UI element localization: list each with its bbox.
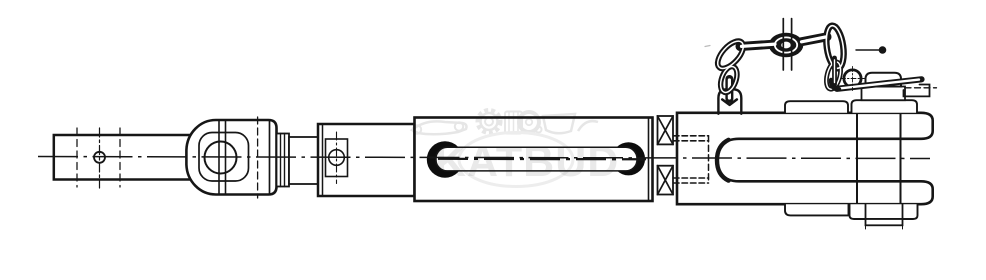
thread band bottom X xyxy=(658,166,674,195)
linch pin hook dashed line xyxy=(905,87,937,89)
chain link upper-left (outer) xyxy=(713,37,748,73)
linch pin hook end xyxy=(904,85,930,97)
thread band top X xyxy=(658,116,674,144)
chain link lower-left (outer) xyxy=(717,64,740,94)
tube right inner line xyxy=(648,118,650,202)
leader line xyxy=(856,49,880,51)
left bar hidden line b xyxy=(119,128,121,187)
slot white channel xyxy=(436,147,637,171)
chain small link to clip (outer) xyxy=(824,60,843,90)
clevis thread hidden bottom pair xyxy=(674,177,709,179)
chain white cores xyxy=(713,37,748,73)
eye head vertical line b xyxy=(225,121,227,194)
chain end link arch xyxy=(718,89,741,114)
channel centerline overlay xyxy=(438,158,646,161)
collar xyxy=(277,134,290,187)
pin head top block xyxy=(866,73,902,87)
watermark droplet icon xyxy=(536,127,542,133)
svg-text:KATBUD: KATBUD xyxy=(435,138,619,186)
linch pin ring xyxy=(844,70,861,87)
eye head hidden vertical xyxy=(257,117,259,198)
eye head inner right line xyxy=(269,121,271,194)
watermark wheel icon xyxy=(519,112,539,132)
left bar hole xyxy=(94,152,105,163)
watermark pan icon xyxy=(543,114,575,133)
clevis slot cap heavy arc xyxy=(717,140,729,181)
pin bottom whisker right xyxy=(902,225,904,229)
eye head body xyxy=(186,120,276,195)
eye hole circle xyxy=(205,142,237,174)
grease fitting vertical centerline xyxy=(336,132,338,184)
chain center ring (outer) xyxy=(769,33,804,57)
watermark fender icon xyxy=(578,121,598,131)
watermark gear icon xyxy=(478,110,501,133)
clevis pin left edge xyxy=(856,113,858,204)
pin side through bottom pad right xyxy=(902,204,904,219)
chain break line a xyxy=(782,19,784,70)
left bar hidden line a xyxy=(76,128,78,187)
slot left black end xyxy=(427,141,463,177)
collar line a xyxy=(280,134,282,187)
collar line b xyxy=(284,134,286,187)
clevis bottom pad 2 xyxy=(850,204,918,219)
clevis top pad 1 xyxy=(785,101,848,113)
grease fitting square xyxy=(326,139,348,177)
linch pin handle (outer) xyxy=(837,79,922,89)
faint tick left of chain xyxy=(705,46,710,47)
chain end link arrow xyxy=(722,100,737,105)
pin head base xyxy=(862,87,906,101)
sleeve xyxy=(318,124,415,196)
thread band bottom box xyxy=(658,166,674,195)
pin side through bottom pad left xyxy=(865,204,867,219)
chain bar link B1 (outer) xyxy=(740,44,777,47)
pin bottom end xyxy=(866,219,903,225)
linch pin handle core xyxy=(840,80,920,89)
main tube xyxy=(415,118,653,202)
linch pin ring cross horizontal xyxy=(841,78,865,80)
clevis top pad 2 xyxy=(852,100,918,113)
clevis pin right edge xyxy=(900,113,902,204)
watermark bearing icon xyxy=(505,112,522,134)
chain break line b xyxy=(791,19,793,70)
left bar xyxy=(54,135,210,180)
eye head inner contour xyxy=(199,133,249,182)
chain bar link B2 (outer) xyxy=(800,37,827,42)
left bar hole vertical centerline xyxy=(99,128,101,188)
linch pin vertical wire xyxy=(832,58,837,85)
main horizontal centerline xyxy=(38,157,930,159)
chain link right vertical (outer) xyxy=(824,25,846,70)
clevis thread hidden top pair xyxy=(674,135,709,137)
linch pin ring cross vertical xyxy=(852,67,854,91)
watermark group xyxy=(412,110,619,187)
pin bottom whisker left xyxy=(865,225,867,229)
watermark oval ring xyxy=(459,133,573,187)
chain end link edge-on bar xyxy=(725,79,733,99)
neck cylinder xyxy=(289,137,318,184)
clevis body xyxy=(677,113,933,204)
grease fitting circle xyxy=(329,150,345,166)
clevis bottom pad 1 xyxy=(785,204,849,215)
clevis thread hidden vertical xyxy=(708,136,710,183)
thread band top box xyxy=(658,116,674,144)
sleeve inner left line xyxy=(322,124,324,196)
linch pin bend xyxy=(831,80,839,89)
leader dot xyxy=(879,46,887,54)
watermark control arm icon xyxy=(412,121,467,134)
eye head vertical line a xyxy=(218,121,220,194)
slot right black end xyxy=(612,142,645,175)
